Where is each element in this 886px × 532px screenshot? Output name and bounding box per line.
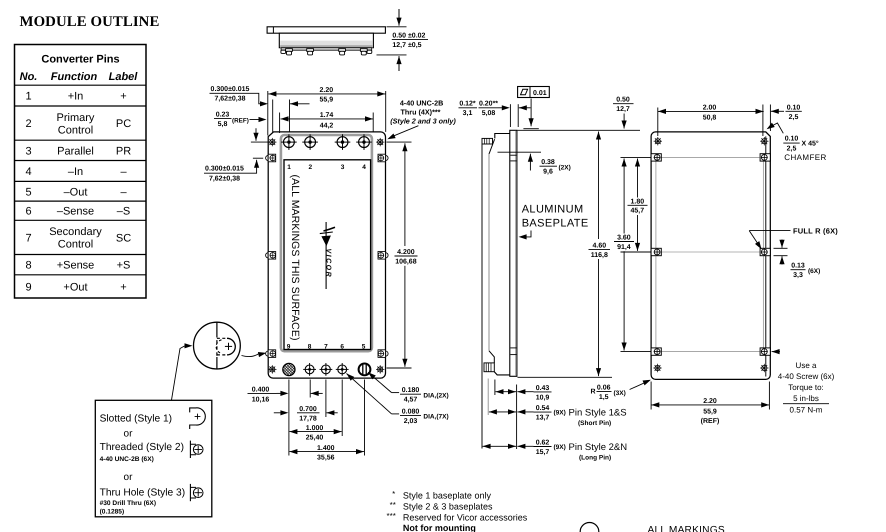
- svg-text:–: –: [120, 166, 127, 178]
- svg-text:55,9: 55,9: [703, 409, 717, 416]
- front view edge slots right: [378, 154, 388, 162]
- svg-text:35,56: 35,56: [317, 454, 335, 461]
- svg-text:25,40: 25,40: [306, 434, 324, 441]
- svg-text:1.000: 1.000: [306, 425, 324, 432]
- front view edge slots left: [266, 154, 276, 162]
- svg-text:91,4: 91,4: [617, 244, 631, 251]
- dimension 4.200 106,68 right side: [387, 141, 412, 143]
- svg-text:5: 5: [25, 186, 31, 198]
- svg-text:Thru (4X)***: Thru (4X)***: [401, 107, 441, 116]
- svg-text:Pin Style 2&N: Pin Style 2&N: [569, 442, 628, 453]
- svg-text:2.20: 2.20: [703, 398, 717, 405]
- svg-text:0.62: 0.62: [536, 440, 550, 447]
- down arrow to hole row line: [255, 128, 257, 135]
- svg-text:0.180: 0.180: [402, 387, 420, 394]
- svg-text:6: 6: [340, 343, 344, 350]
- svg-text:116,8: 116,8: [591, 252, 608, 259]
- svg-text:–S: –S: [117, 206, 130, 218]
- rear view gray verticals: [655, 162, 657, 349]
- svg-text:55,9: 55,9: [319, 96, 333, 103]
- side view bottom pin stub: [484, 363, 494, 372]
- svg-text:–Sense: –Sense: [57, 206, 94, 218]
- legend box: [95, 400, 212, 517]
- leader use a screw: [772, 349, 780, 354]
- svg-text:2,5: 2,5: [787, 146, 797, 153]
- svg-text:9: 9: [287, 343, 291, 350]
- svg-text:0.38: 0.38: [541, 159, 555, 166]
- svg-text:Pin Style 1&S: Pin Style 1&S: [569, 408, 627, 419]
- svg-text:#30 Drill Thru (6X): #30 Drill Thru (6X): [100, 500, 156, 507]
- svg-text:SC: SC: [116, 232, 131, 244]
- svg-text:5,08: 5,08: [482, 110, 496, 117]
- svg-text:3,3: 3,3: [793, 272, 803, 279]
- bottom pin 5 0.180 dia with blade: [359, 364, 371, 376]
- svg-text:+S: +S: [117, 260, 131, 272]
- svg-text:–Out: –Out: [64, 186, 88, 198]
- side view pin tip extension line: [481, 144, 483, 449]
- svg-text:(REF): (REF): [232, 117, 249, 124]
- svg-text:6: 6: [25, 206, 31, 218]
- top view standoff strip: [281, 48, 372, 51]
- svg-text:Secondary: Secondary: [49, 226, 102, 238]
- svg-text:–In: –In: [68, 166, 83, 178]
- svg-text:Threaded (Style 2): Threaded (Style 2): [100, 442, 184, 453]
- svg-text:4-40 UNC-2B (6X): 4-40 UNC-2B (6X): [100, 456, 154, 463]
- svg-text:15,7: 15,7: [536, 449, 550, 456]
- legend icon style 2: [189, 441, 191, 458]
- svg-text:5 in-lbs: 5 in-lbs: [793, 394, 819, 403]
- svg-text:MODULE OUTLINE: MODULE OUTLINE: [20, 14, 160, 30]
- svg-text:4.200: 4.200: [397, 249, 415, 256]
- svg-text:0.01: 0.01: [533, 90, 547, 97]
- svg-text:3: 3: [341, 164, 345, 171]
- svg-text:Not for mounting: Not for mounting: [403, 523, 476, 532]
- svg-text:(9X): (9X): [554, 410, 566, 417]
- svg-text:(3X): (3X): [614, 390, 626, 397]
- svg-text:Converter Pins: Converter Pins: [41, 54, 119, 66]
- leader from legend box to detail circle: [172, 346, 185, 400]
- svg-text:R: R: [591, 388, 596, 395]
- top view module body: [279, 33, 373, 48]
- svg-text:Parallel: Parallel: [57, 145, 94, 157]
- svg-text:X 45°: X 45°: [802, 141, 819, 148]
- dimension 0.13 3,3 6X: [774, 247, 788, 249]
- svg-text:1.400: 1.400: [317, 445, 335, 452]
- svg-text:+: +: [120, 281, 126, 293]
- svg-text:0.06: 0.06: [597, 385, 611, 392]
- svg-text:BASEPLATE: BASEPLATE: [522, 218, 589, 230]
- svg-text:DIA,(7X): DIA,(7X): [423, 414, 448, 421]
- svg-text:Control: Control: [58, 239, 93, 251]
- svg-text:(2X): (2X): [559, 165, 571, 172]
- rear corner holes: [654, 137, 662, 145]
- svg-text:2: 2: [308, 164, 312, 171]
- svg-text:0.10: 0.10: [787, 104, 801, 111]
- svg-text:0.23: 0.23: [216, 112, 230, 119]
- svg-text:44,2: 44,2: [320, 122, 334, 129]
- svg-text:10,9: 10,9: [536, 394, 550, 401]
- dimension 3.60 91,4: [622, 159, 627, 167]
- leader for 0.300 top: [254, 93, 262, 104]
- svg-text:9,6: 9,6: [543, 169, 553, 176]
- dimension 0.38 9,6 2X: [498, 151, 542, 153]
- rear view outline with chamfer: [651, 132, 770, 380]
- front view label panel: [284, 160, 371, 350]
- svg-text:0.12*: 0.12*: [459, 101, 476, 108]
- leader from detail circle to module slot: [242, 353, 260, 356]
- vicor logo arrow: [325, 222, 327, 289]
- svg-text:1.74: 1.74: [320, 112, 334, 119]
- svg-text:Function: Function: [51, 71, 98, 83]
- svg-text:Torque to:: Torque to:: [788, 383, 824, 392]
- svg-text:0.700: 0.700: [299, 406, 317, 413]
- side view flatness control frame: [518, 87, 550, 98]
- svg-text:ALUMINUM: ALUMINUM: [522, 203, 584, 215]
- svg-text:(REF): (REF): [701, 417, 720, 425]
- front view mounting hole row pins 1-4: [281, 134, 297, 150]
- svg-text:or: or: [124, 472, 134, 483]
- svg-text:(Short Pin): (Short Pin): [578, 420, 611, 427]
- svg-text:7: 7: [324, 343, 328, 350]
- svg-text:(0.1285): (0.1285): [100, 509, 125, 516]
- rear extension rows left: [621, 156, 652, 158]
- svg-text:4: 4: [25, 166, 31, 178]
- detail slot cross: [225, 345, 232, 347]
- leader aluminum baseplate: [524, 231, 531, 237]
- dimension 1.000 25,40: [289, 429, 297, 434]
- svg-text:(9X): (9X): [554, 444, 566, 451]
- svg-text:PC: PC: [116, 118, 131, 130]
- svg-text:3.60: 3.60: [617, 235, 631, 242]
- svg-text:3,1: 3,1: [463, 110, 473, 117]
- svg-text:+: +: [120, 91, 126, 103]
- svg-text:1: 1: [25, 91, 31, 103]
- label 0.080 2,03 DIA 7X: [347, 374, 392, 414]
- svg-text:5: 5: [362, 343, 366, 350]
- dimension 1.400 35,56: [289, 449, 297, 454]
- side view top pin stub: [482, 138, 493, 144]
- svg-text:8: 8: [308, 343, 312, 350]
- svg-text:+Sense: +Sense: [57, 260, 95, 272]
- svg-text:*: *: [392, 489, 395, 498]
- svg-text:Style 1 baseplate only: Style 1 baseplate only: [403, 490, 492, 500]
- svg-text:8: 8: [25, 260, 31, 272]
- svg-text:PR: PR: [116, 145, 131, 157]
- svg-text:13,7: 13,7: [536, 415, 550, 422]
- svg-text:ALL MARKINGS: ALL MARKINGS: [648, 525, 725, 532]
- legend icon style 3: [189, 484, 191, 501]
- svg-text:0.10: 0.10: [785, 136, 799, 143]
- svg-text:7,62±0,38: 7,62±0,38: [209, 176, 240, 183]
- screw head pictogram partial: [580, 523, 599, 532]
- top view body gray band: [280, 41, 372, 48]
- dimension 0.50 +/-0.02 height of top view: [387, 26, 407, 28]
- svg-text:0.300±0.015: 0.300±0.015: [211, 86, 250, 93]
- svg-text:(Long Pin): (Long Pin): [579, 454, 611, 461]
- svg-text:0.50: 0.50: [616, 97, 630, 104]
- svg-text:(6X): (6X): [808, 268, 820, 275]
- bottom pins 8 7 6: [303, 363, 316, 376]
- svg-text:4,57: 4,57: [404, 397, 418, 404]
- svg-text:+Out: +Out: [63, 281, 87, 293]
- svg-text:2.20: 2.20: [319, 87, 333, 94]
- extension lines above front view: [267, 91, 269, 136]
- svg-text:12,7: 12,7: [616, 106, 630, 113]
- svg-text:1: 1: [287, 164, 291, 171]
- svg-text:2: 2: [25, 118, 31, 130]
- svg-text:1,5: 1,5: [599, 394, 609, 401]
- legend icon style 1: [190, 408, 206, 429]
- svg-text:2,5: 2,5: [789, 114, 799, 121]
- svg-text:0.50 ±0.02: 0.50 ±0.02: [392, 33, 425, 40]
- svg-text:Reserved for Vicor accessories: Reserved for Vicor accessories: [403, 512, 528, 522]
- svg-text:0.43: 0.43: [536, 385, 550, 392]
- leader to top-right corner hole: [392, 126, 419, 137]
- opposing arrow 0.300 top: [290, 101, 298, 106]
- top view corner feet: [281, 50, 286, 53]
- svg-text:7,62±0,38: 7,62±0,38: [214, 95, 245, 102]
- top view flange left tab line: [272, 27, 274, 33]
- svg-text:+In: +In: [68, 91, 84, 103]
- svg-text:DIA,(2X): DIA,(2X): [423, 392, 448, 399]
- svg-text:2,03: 2,03: [404, 418, 418, 425]
- leader chamfer: [769, 123, 783, 133]
- label 0.180 4,57 DIA 2X: [368, 372, 392, 392]
- svg-text:(Style 2 and 3 only): (Style 2 and 3 only): [390, 116, 456, 125]
- dimension 4.60 116,8: [518, 129, 641, 131]
- rear view chamfer inner line: [765, 136, 767, 376]
- side view baseplate: [510, 130, 517, 376]
- svg-text:FULL R (6X): FULL R (6X): [793, 226, 838, 235]
- svg-text:3: 3: [25, 145, 31, 157]
- top view pins: [286, 49, 293, 52]
- dimension 1.74 44,2 pins: [281, 116, 289, 121]
- front view corner hole bottom-left: [268, 365, 276, 373]
- front view corner hole top-right: [376, 138, 384, 146]
- svg-text:10,16: 10,16: [252, 396, 270, 403]
- table horizontal lines: [15, 84, 146, 86]
- detail slot dashed outline: [217, 337, 227, 339]
- svg-text:No.: No.: [20, 71, 38, 83]
- dimension 0.43 10,9: [494, 380, 496, 396]
- svg-text:4.60: 4.60: [592, 242, 606, 249]
- svg-text:50,8: 50,8: [703, 115, 717, 122]
- svg-text:–: –: [120, 186, 127, 198]
- front view corner hole top-left: [268, 138, 276, 146]
- svg-text:45,7: 45,7: [630, 208, 644, 215]
- svg-text:Slotted (Style 1): Slotted (Style 1): [100, 413, 172, 424]
- svg-text:4-40 UNC-2B: 4-40 UNC-2B: [400, 99, 444, 108]
- svg-text:or: or: [124, 428, 134, 439]
- converter pins table frame: [15, 45, 147, 299]
- svg-text:2.00: 2.00: [703, 105, 717, 112]
- detail circle centerline: [216, 322, 218, 334]
- svg-text:17,78: 17,78: [299, 416, 317, 423]
- svg-text:106,68: 106,68: [395, 259, 417, 266]
- svg-text:0.400: 0.400: [252, 387, 270, 394]
- svg-text:Thru Hole (Style 3): Thru Hole (Style 3): [100, 487, 186, 498]
- front view corner hole bottom-right: [376, 365, 384, 373]
- svg-text:Style 2 & 3 baseplates: Style 2 & 3 baseplates: [403, 501, 493, 511]
- dimension 0.10 2,5 top right: [769, 105, 771, 132]
- svg-text:4: 4: [362, 164, 366, 171]
- front view inner flange gray border: [281, 135, 372, 351]
- svg-text:0.20**: 0.20**: [479, 101, 498, 108]
- leader R to rear corner: [630, 381, 649, 390]
- svg-text:(ALL MARKINGS THIS SURFACE): (ALL MARKINGS THIS SURFACE): [289, 175, 301, 341]
- svg-text:Use a: Use a: [796, 361, 817, 370]
- svg-text:***: ***: [387, 511, 396, 520]
- dimension 0.700 17,78: [274, 412, 281, 414]
- dimension 2.00 50,8: [657, 108, 659, 137]
- svg-text:0.54: 0.54: [536, 405, 550, 412]
- svg-text:0.13: 0.13: [791, 263, 805, 270]
- flatness down arrow: [530, 99, 532, 122]
- svg-text:0.080: 0.080: [402, 408, 420, 415]
- leader 0.300 left going up: [247, 165, 257, 173]
- dimension 0.54 13,7 pin style 1&S: [487, 379, 489, 416]
- svg-text:Primary: Primary: [57, 112, 95, 124]
- svg-text:12,7 ±0,5: 12,7 ±0,5: [392, 42, 421, 49]
- bottom pin 9 hatched 0.180 dia: [283, 363, 295, 375]
- side view body profile: [495, 134, 510, 139]
- dimension 2.20 55,9 REF rear: [650, 382, 652, 410]
- baseplate notch lines: [510, 154, 516, 156]
- leader full R: [749, 230, 790, 232]
- svg-text:**: **: [390, 500, 396, 509]
- rear view gray row lines: [662, 156, 760, 158]
- svg-text:0.57 N-m: 0.57 N-m: [790, 405, 823, 414]
- dimension 1.80 45,7: [635, 159, 640, 167]
- rear slots left: [651, 154, 661, 161]
- svg-text:Label: Label: [109, 71, 139, 83]
- svg-text:Control: Control: [58, 124, 93, 136]
- dimension 0.62 15,7 pin style 2&N: [483, 444, 491, 449]
- svg-text:0.300±0.015: 0.300±0.015: [205, 165, 244, 172]
- svg-text:1.80: 1.80: [630, 198, 644, 205]
- extension lines below front view: [288, 380, 290, 456]
- svg-text:CHAMFER: CHAMFER: [784, 153, 826, 162]
- svg-text:9: 9: [25, 281, 31, 293]
- svg-text:VICOR: VICOR: [325, 249, 332, 279]
- rear slots right: [760, 154, 770, 161]
- svg-text:5,8: 5,8: [218, 121, 228, 128]
- detail circle of slot: [194, 322, 241, 369]
- front view module outline: [268, 132, 385, 378]
- svg-text:7: 7: [25, 232, 31, 244]
- svg-text:4-40 Screw (6x): 4-40 Screw (6x): [778, 372, 835, 381]
- top view baseplate flange plate: [267, 27, 385, 33]
